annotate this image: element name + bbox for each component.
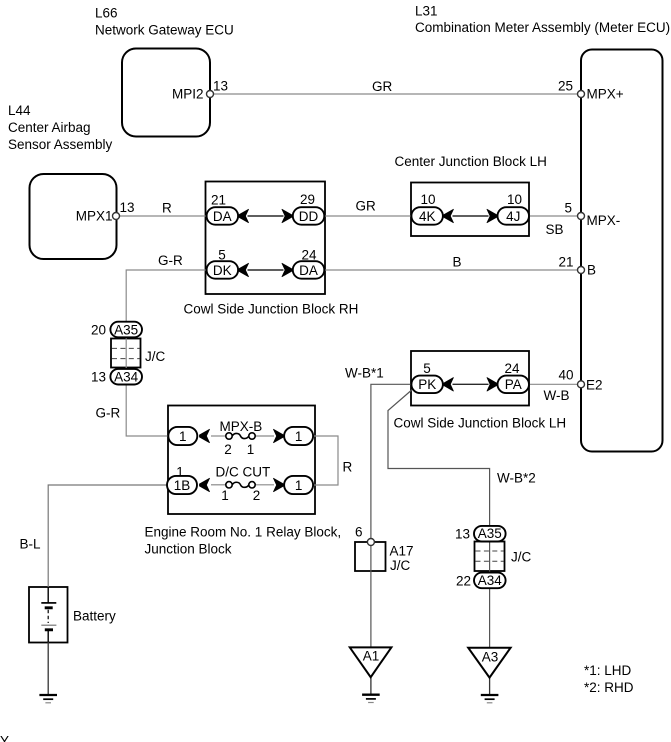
pin 21 node B bbox=[578, 267, 585, 274]
fuse pin 1 D/C CUT bbox=[221, 488, 229, 503]
svg-text:PK: PK bbox=[418, 377, 436, 392]
pin 25 node MPX+ bbox=[578, 91, 585, 98]
connector DD pin 29 bbox=[293, 207, 325, 225]
label B bbox=[587, 263, 596, 278]
note *2 RHD bbox=[584, 680, 634, 695]
svg-text:MPX-: MPX- bbox=[587, 213, 621, 228]
arrow toward DD bbox=[282, 209, 292, 222]
pin number 13 MPX1 bbox=[120, 200, 135, 215]
svg-text:A1: A1 bbox=[363, 649, 380, 664]
connector A35 left bbox=[110, 322, 142, 338]
fuse D/C CUT bbox=[226, 482, 255, 488]
wire G-R through J/C left bbox=[125, 330, 127, 377]
page letter Y bbox=[0, 734, 9, 742]
label Center Junction Block LH bbox=[395, 154, 547, 169]
ground triangle A1 bbox=[350, 647, 392, 677]
svg-text:10: 10 bbox=[507, 192, 522, 207]
wire W-B from PA pin 24 to Meter pin 40 E2 bbox=[528, 383, 581, 385]
connector relay pin 1 row2 right bbox=[284, 476, 313, 494]
svg-text:W-B: W-B bbox=[544, 388, 570, 403]
svg-text:40: 40 bbox=[558, 368, 573, 383]
wire inside Cowl RH row2 between arrows bbox=[248, 269, 284, 271]
svg-text:A17: A17 bbox=[390, 544, 414, 559]
label J/C A17 bbox=[390, 558, 411, 573]
label L31 bbox=[415, 4, 438, 19]
pin 13 node on MPI2 bbox=[207, 91, 214, 98]
wire label W-B*2 bbox=[497, 471, 536, 486]
arrow toward PK bbox=[443, 378, 453, 391]
connector label 4K bbox=[419, 209, 436, 224]
connector label A35 left bbox=[114, 322, 138, 337]
svg-text:G-R: G-R bbox=[158, 253, 183, 268]
wire W-B*2 diagonal from PK pin 5 bbox=[388, 388, 490, 527]
wire label GR top bbox=[372, 79, 393, 94]
pin number 5 DK bbox=[218, 248, 226, 263]
wire inside relay row2 left bbox=[211, 484, 226, 486]
label MPX+ bbox=[587, 87, 624, 102]
pin number 21 DA bbox=[211, 193, 226, 208]
svg-text:G-R: G-R bbox=[96, 406, 121, 421]
connector label PA bbox=[505, 377, 522, 392]
svg-text:13: 13 bbox=[455, 527, 470, 542]
wire G-R from junction to DK pin 5 bbox=[126, 270, 208, 322]
connector A34 left bbox=[110, 369, 142, 385]
label Combination Meter Assembly (Meter ECU) bbox=[415, 20, 670, 35]
svg-text:L44: L44 bbox=[8, 103, 31, 118]
svg-text:J/C: J/C bbox=[390, 558, 411, 573]
connector relay pin 1 row1 left bbox=[168, 427, 197, 445]
label J/C right bbox=[511, 550, 532, 565]
fuse MPX-B bbox=[226, 433, 255, 439]
label Battery bbox=[73, 609, 116, 624]
wire B from DA pin 24 to Meter pin 21 bbox=[324, 269, 581, 271]
wire A1 triangle to ground bbox=[370, 677, 372, 694]
ground label A1 bbox=[363, 649, 380, 664]
wire label G-R bbox=[158, 253, 183, 268]
connector label PK bbox=[418, 377, 436, 392]
wire inside Cowl LH between arrows bbox=[453, 383, 489, 385]
svg-text:A34: A34 bbox=[114, 370, 139, 385]
svg-text:25: 25 bbox=[558, 79, 573, 94]
svg-text:MPX+: MPX+ bbox=[587, 87, 624, 102]
svg-text:A35: A35 bbox=[478, 526, 502, 541]
arrow toward DA bbox=[239, 209, 249, 222]
ground label A3 bbox=[482, 650, 499, 665]
svg-text:Center Junction Block LH: Center Junction Block LH bbox=[395, 154, 547, 169]
wire label SB bbox=[546, 222, 564, 237]
wire inside Cowl RH row1 between arrows bbox=[248, 215, 284, 217]
label Engine Room No. 1 Relay Block, bbox=[145, 525, 342, 540]
battery box bbox=[29, 587, 68, 643]
svg-text:PA: PA bbox=[505, 377, 522, 392]
svg-text:Cowl Side Junction Block RH: Cowl Side Junction Block RH bbox=[184, 302, 359, 317]
pin 40 node E2 bbox=[578, 381, 585, 388]
arrow toward relay pin 1 row1 bbox=[200, 429, 210, 442]
svg-text:Battery: Battery bbox=[73, 609, 116, 624]
svg-text:Sensor Assembly: Sensor Assembly bbox=[8, 137, 113, 152]
svg-text:MPI2: MPI2 bbox=[172, 87, 204, 102]
svg-text:5: 5 bbox=[218, 248, 226, 263]
label J/C left bbox=[145, 349, 166, 364]
label L44 bbox=[8, 103, 31, 118]
connector label DA2 bbox=[299, 263, 318, 278]
wire inside relay row1 left bbox=[211, 435, 226, 437]
wire inside Center JB between arrows bbox=[453, 215, 489, 217]
connector label 1B bbox=[174, 478, 191, 493]
pin 5 node MPX- bbox=[578, 213, 585, 220]
pin number 5 MPX- bbox=[564, 201, 572, 216]
arrow toward relay pin 1B bbox=[200, 478, 210, 491]
label Cowl Side Junction Block LH bbox=[394, 416, 567, 431]
connector label A34 left bbox=[114, 370, 139, 385]
svg-text:SB: SB bbox=[546, 222, 564, 237]
label MPX1 bbox=[76, 209, 113, 224]
svg-text:6: 6 bbox=[355, 525, 363, 540]
pin number 21 B bbox=[558, 255, 573, 270]
label Cowl Side Junction Block RH bbox=[184, 302, 359, 317]
svg-text:1: 1 bbox=[247, 442, 255, 457]
connector DA pin 24 bbox=[293, 261, 325, 279]
connector relay pin 1B bbox=[167, 476, 197, 494]
svg-text:L31: L31 bbox=[415, 4, 438, 19]
label E2 bbox=[586, 378, 603, 393]
svg-text:GR: GR bbox=[372, 79, 393, 94]
junction connector A17 box bbox=[355, 542, 386, 571]
label L66 bbox=[95, 6, 118, 21]
wire GR from DD pin 29 to 4K pin 10 bbox=[324, 215, 413, 217]
ECU L31 Combination Meter Assembly box bbox=[581, 50, 663, 452]
junction connector J/C right box bbox=[475, 542, 505, 572]
pin 6 node on A17 bbox=[367, 539, 374, 546]
connector 4K pin 10 bbox=[411, 207, 443, 225]
wire W-B*1 from PK pin 5 to A17 pin 6 bbox=[371, 384, 412, 542]
arrow toward relay right pin 1 row2 bbox=[274, 478, 284, 491]
wire label W-B*1 bbox=[345, 366, 384, 381]
svg-text:A34: A34 bbox=[478, 573, 503, 588]
ECU L44 Center Airbag Sensor Assembly box (MPX1) bbox=[30, 174, 117, 259]
svg-text:DK: DK bbox=[213, 263, 232, 278]
connector label A34 right bbox=[478, 573, 503, 588]
connector A35 right bbox=[474, 526, 506, 542]
pin number 1 above 1B bbox=[176, 465, 184, 480]
svg-text:4K: 4K bbox=[419, 209, 436, 224]
wire A3 triangle to ground bbox=[489, 678, 491, 695]
svg-text:22: 22 bbox=[456, 574, 471, 589]
ground symbol A1 bbox=[362, 695, 380, 703]
connector PA pin 24 bbox=[498, 376, 530, 394]
svg-text:1: 1 bbox=[295, 429, 303, 444]
label Junction Block bbox=[145, 542, 232, 557]
wire GR from MPI2 pin 13 to Meter pin 25 bbox=[210, 93, 581, 95]
wire B-L from relay pin 1B to battery bbox=[48, 485, 168, 587]
wire W-B*1 through A17 to ground triangle A1 bbox=[370, 542, 372, 648]
svg-text:A35: A35 bbox=[114, 322, 138, 337]
pin number 10 4J bbox=[507, 192, 522, 207]
svg-text:B: B bbox=[587, 263, 596, 278]
connector DK pin 5 bbox=[207, 261, 239, 279]
wire inside relay row2 right bbox=[255, 484, 274, 486]
wire inside relay row1 right bbox=[255, 435, 274, 437]
label Sensor Assembly bbox=[8, 137, 113, 152]
label Network Gateway ECU bbox=[95, 23, 234, 38]
svg-text:Combination Meter Assembly (Me: Combination Meter Assembly (Meter ECU) bbox=[415, 20, 670, 35]
connector label 1 row1 right bbox=[295, 429, 303, 444]
wire label B-L bbox=[20, 537, 42, 552]
svg-text:*1: LHD: *1: LHD bbox=[584, 663, 632, 678]
svg-text:1: 1 bbox=[221, 488, 229, 503]
svg-text:DA: DA bbox=[213, 209, 232, 224]
svg-text:13: 13 bbox=[91, 370, 106, 385]
svg-text:Engine Room No. 1 Relay Block,: Engine Room No. 1 Relay Block, bbox=[145, 525, 342, 540]
fuse label MPX-B bbox=[220, 419, 263, 434]
wire label G-R lower bbox=[96, 406, 121, 421]
svg-text:A3: A3 bbox=[482, 650, 499, 665]
svg-text:J/C: J/C bbox=[511, 550, 532, 565]
svg-text:24: 24 bbox=[504, 361, 520, 376]
J/C left dashed internals bbox=[112, 348, 140, 358]
svg-text:20: 20 bbox=[91, 323, 106, 338]
arrow toward DK bbox=[239, 263, 249, 276]
svg-text:GR: GR bbox=[356, 199, 377, 214]
junction connector J/C left box bbox=[111, 339, 141, 368]
label Center Airbag bbox=[8, 120, 91, 135]
wire W-B*2 through J/C right bbox=[489, 534, 491, 581]
wire R loop from relay right pin 1 to pin 1 row2 bbox=[313, 436, 338, 485]
svg-text:1B: 1B bbox=[174, 478, 191, 493]
svg-text:2: 2 bbox=[253, 488, 261, 503]
fuse label D/C CUT bbox=[216, 465, 271, 480]
connector label 1 row1 left bbox=[179, 429, 187, 444]
arrow toward 4K bbox=[443, 209, 453, 222]
wire R from MPX1 pin 13 to DA pin 21 bbox=[116, 215, 208, 217]
pin number 22 A34 right bbox=[456, 574, 471, 589]
svg-text:5: 5 bbox=[423, 361, 431, 376]
svg-text:13: 13 bbox=[120, 200, 135, 215]
connector DA pin 21 bbox=[207, 207, 239, 225]
svg-text:21: 21 bbox=[211, 193, 226, 208]
svg-text:B-L: B-L bbox=[20, 537, 42, 552]
svg-text:1: 1 bbox=[179, 429, 187, 444]
svg-text:B: B bbox=[453, 255, 462, 270]
wire label B bbox=[453, 255, 462, 270]
note *1 LHD bbox=[584, 663, 632, 678]
svg-text:Y: Y bbox=[0, 734, 9, 742]
connector relay pin 1 row1 right bbox=[284, 427, 313, 445]
pin number 13 A35 right bbox=[455, 527, 470, 542]
svg-text:*2: RHD: *2: RHD bbox=[584, 680, 634, 695]
junction block Cowl Side Junction Block LH box bbox=[411, 351, 529, 406]
svg-text:24: 24 bbox=[301, 248, 317, 263]
connector PK pin 5 bbox=[411, 376, 443, 394]
pin number 24 PA bbox=[504, 361, 520, 376]
svg-text:Center Airbag: Center Airbag bbox=[8, 120, 91, 135]
wire G-R from A34 to relay block pin 1 bbox=[126, 384, 169, 436]
pin number 29 DD bbox=[300, 192, 315, 207]
svg-text:MPX-B: MPX-B bbox=[220, 419, 263, 434]
connector label DK bbox=[213, 263, 232, 278]
connector label 1 row2 right bbox=[295, 478, 303, 493]
fuse pin 1 MPX-B bbox=[247, 442, 255, 457]
svg-text:W-B*2: W-B*2 bbox=[497, 471, 536, 486]
label MPX- bbox=[587, 213, 621, 228]
arrow toward relay right pin 1 row1 bbox=[274, 429, 284, 442]
junction block Engine Room No.1 Relay Block box bbox=[168, 406, 315, 515]
svg-text:W-B*1: W-B*1 bbox=[345, 366, 384, 381]
wire label R right bbox=[343, 460, 353, 475]
fuse pin 2 D/C CUT bbox=[253, 488, 261, 503]
junction block Center Junction Block LH box bbox=[411, 183, 529, 237]
pin number 5 PK bbox=[423, 361, 431, 376]
svg-text:29: 29 bbox=[300, 192, 315, 207]
label MPI2 bbox=[172, 87, 204, 102]
pin number 20 A35 bbox=[91, 323, 106, 338]
pin number 25 bbox=[558, 79, 573, 94]
junction block Cowl Side Junction Block RH box bbox=[206, 182, 326, 295]
svg-text:Network Gateway ECU: Network Gateway ECU bbox=[95, 23, 234, 38]
ground symbol A3 bbox=[481, 695, 499, 703]
wire SB from 4J pin 10 to Meter pin 5 MPX- bbox=[528, 215, 581, 217]
wire W-B*2 from A34 to ground triangle A3 bbox=[489, 587, 491, 648]
fuse pin 2 MPX-B bbox=[224, 442, 232, 457]
ground symbol battery bbox=[39, 695, 57, 703]
connector label 4J bbox=[506, 209, 520, 224]
svg-text:DD: DD bbox=[299, 209, 319, 224]
pin number 13 A34 bbox=[91, 370, 106, 385]
connector 4J pin 10 bbox=[498, 207, 530, 225]
connector label A35 right bbox=[478, 526, 502, 541]
svg-text:L66: L66 bbox=[95, 6, 118, 21]
wire label R bbox=[162, 201, 172, 216]
svg-text:1: 1 bbox=[295, 478, 303, 493]
pin number 13 MPI2 bbox=[213, 79, 228, 94]
wire battery to ground bbox=[47, 642, 49, 694]
svg-text:5: 5 bbox=[564, 201, 572, 216]
arrow toward DA row2 bbox=[282, 263, 292, 276]
label A17 bbox=[390, 544, 414, 559]
svg-text:13: 13 bbox=[213, 79, 228, 94]
svg-text:Cowl Side Junction Block LH: Cowl Side Junction Block LH bbox=[394, 416, 567, 431]
arrow toward PA bbox=[487, 378, 497, 391]
pin 13 node on MPX1 bbox=[113, 213, 120, 220]
pin number 6 A17 bbox=[355, 525, 363, 540]
svg-text:MPX1: MPX1 bbox=[76, 209, 113, 224]
wire label GR mid bbox=[356, 199, 377, 214]
ECU L66 Network Gateway ECU box bbox=[122, 49, 210, 137]
wire label W-B bbox=[544, 388, 570, 403]
ground triangle A3 bbox=[468, 648, 510, 678]
svg-text:J/C: J/C bbox=[145, 349, 166, 364]
J/C right dashed internals bbox=[476, 551, 504, 561]
arrow toward 4J bbox=[487, 209, 497, 222]
svg-text:E2: E2 bbox=[586, 378, 603, 393]
svg-text:4J: 4J bbox=[506, 209, 520, 224]
pin number 24 DA2 bbox=[301, 248, 317, 263]
svg-text:R: R bbox=[343, 460, 353, 475]
svg-text:2: 2 bbox=[224, 442, 232, 457]
pin number 10 4K bbox=[420, 192, 435, 207]
connector label DA bbox=[213, 209, 232, 224]
svg-text:D/C CUT: D/C CUT bbox=[216, 465, 271, 480]
svg-text:DA: DA bbox=[299, 263, 318, 278]
svg-text:Junction Block: Junction Block bbox=[145, 542, 232, 557]
svg-text:21: 21 bbox=[558, 255, 573, 270]
battery cell symbol bbox=[41, 587, 56, 642]
connector label DD bbox=[299, 209, 319, 224]
svg-text:10: 10 bbox=[420, 192, 435, 207]
connector A34 right bbox=[474, 573, 506, 589]
svg-text:R: R bbox=[162, 201, 172, 216]
pin number 40 bbox=[558, 368, 573, 383]
